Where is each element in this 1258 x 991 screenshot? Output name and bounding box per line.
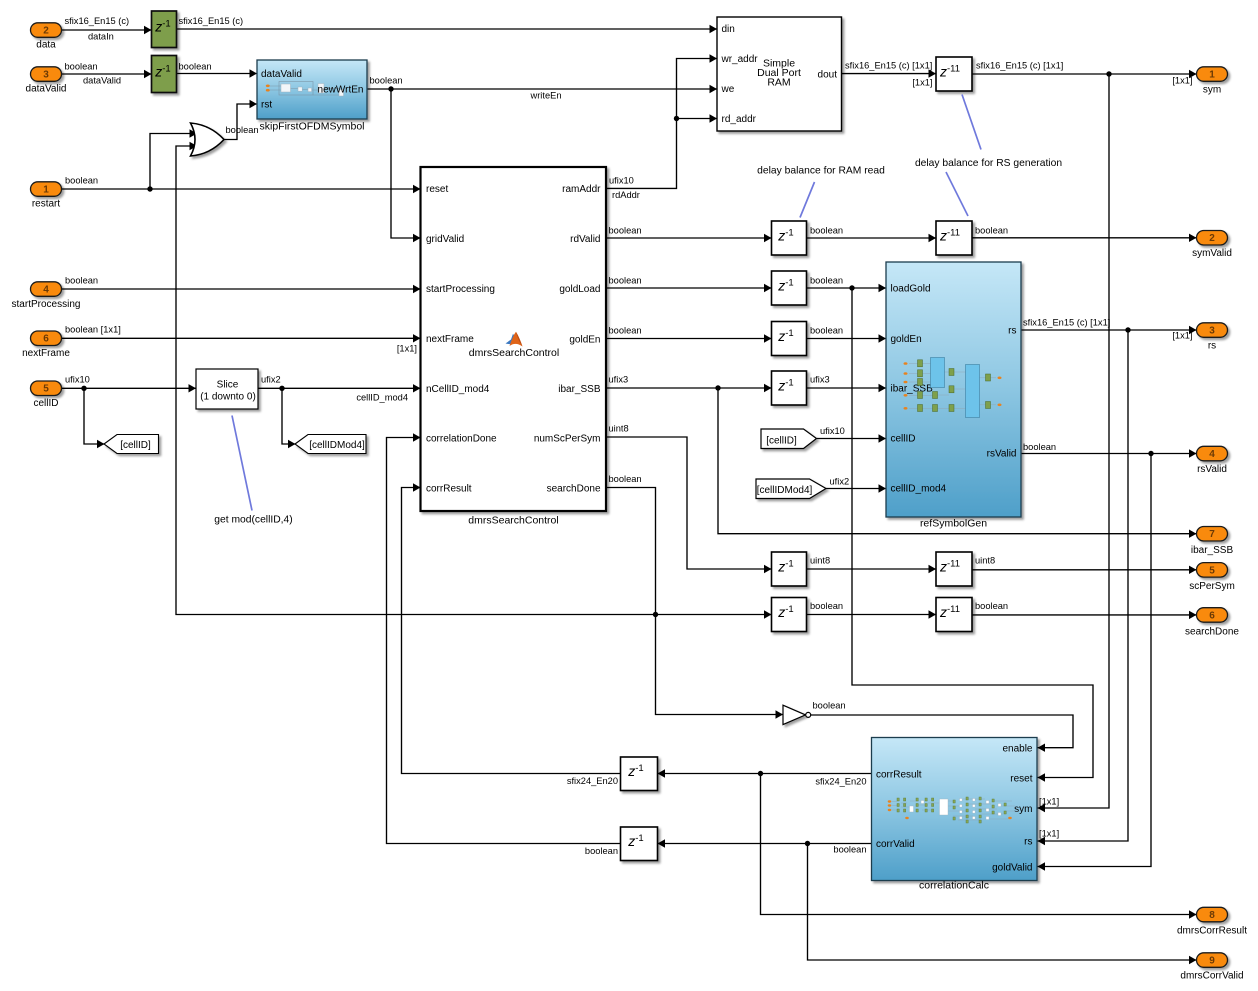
svg-text:3: 3: [1209, 326, 1215, 337]
svg-text:(1 downto 0): (1 downto 0): [200, 392, 256, 403]
svg-text:dataIn: dataIn: [88, 32, 114, 42]
inport 4 startProcessing: [12, 282, 81, 310]
svg-text:rs: rs: [1208, 340, 1216, 351]
svg-text:[1x1]: [1x1]: [1172, 76, 1192, 86]
svg-text:refSymbolGen: refSymbolGen: [920, 518, 987, 530]
svg-text:rdValid: rdValid: [570, 234, 600, 245]
svg-text:boolean: boolean: [813, 701, 846, 711]
svg-text:ibar_SSB: ibar_SSB: [891, 384, 934, 395]
svg-text:writeEn: writeEn: [530, 91, 562, 101]
svg-text:ufix2: ufix2: [261, 375, 281, 385]
svg-text:boolean: boolean: [810, 601, 843, 611]
svg-text:din: din: [722, 24, 735, 35]
svg-text:cellID_mod4: cellID_mod4: [891, 484, 947, 495]
svg-text:1: 1: [1209, 70, 1215, 81]
svg-text:[cellID]: [cellID]: [766, 436, 797, 447]
inport 1 restart: [31, 182, 62, 210]
wire OR output to rst: [224, 100, 259, 140]
wire cellID (inport5 to Slice and goto tag): [62, 375, 197, 449]
svg-text:goldLoad: goldLoad: [559, 284, 600, 295]
wire goldEn net: [606, 326, 887, 343]
wire writeEn (newWrtEn to RAM we and gridValid): [367, 76, 717, 243]
svg-text:cellID: cellID: [33, 398, 58, 409]
outport 7 ibar_SSB: [1191, 527, 1234, 557]
svg-text:cellID: cellID: [891, 434, 916, 445]
svg-text:goldEn: goldEn: [891, 334, 922, 345]
wire NOT out to enable: [811, 701, 1073, 752]
wire searchDone net (to OR gate, NOT gate, delay chain, outport6): [176, 142, 1197, 719]
svg-text:correlationDone: correlationDone: [426, 434, 497, 445]
svg-text:boolean: boolean: [179, 62, 212, 72]
inport 3 dataValid: [26, 67, 67, 95]
svg-text:ufix10: ufix10: [65, 375, 90, 385]
svg-text:boolean: boolean: [810, 276, 843, 286]
svg-text:boolean: boolean: [370, 76, 403, 86]
svg-text:4: 4: [43, 285, 49, 296]
svg-text:[1x1]: [1x1]: [397, 344, 417, 354]
svg-text:restart: restart: [32, 198, 61, 209]
svg-text:7: 7: [1209, 529, 1215, 540]
wire numScPerSym chain to outport5: [606, 424, 1197, 575]
svg-text:reset: reset: [426, 184, 448, 195]
wire corrValid net (to fb delay, dmrsCorrValid outport9): [387, 433, 1197, 964]
svg-text:reset: reset: [1010, 774, 1032, 785]
svg-text:1: 1: [43, 185, 49, 196]
svg-text:uint8: uint8: [609, 424, 629, 434]
svg-text:5: 5: [43, 384, 49, 395]
svg-text:rdAddr: rdAddr: [612, 190, 640, 200]
delay Z-1 (data) green: [152, 11, 177, 48]
svg-text:9: 9: [1209, 956, 1215, 967]
from tag [cellID]: [761, 429, 817, 449]
svg-text:newWrtEn: newWrtEn: [318, 85, 364, 96]
svg-text:dmrsSearchControl: dmrsSearchControl: [468, 515, 558, 527]
subsystem skipFirstOFDMSymbol: [257, 60, 367, 133]
inport 5 cellID: [31, 381, 62, 409]
svg-text:data: data: [36, 39, 56, 50]
wire rsValid net (to outport4 and goldValid): [1021, 442, 1197, 871]
svg-text:corrResult: corrResult: [876, 769, 922, 780]
svg-text:delay balance for RAM read: delay balance for RAM read: [757, 166, 885, 177]
svg-text:ufix3: ufix3: [609, 375, 629, 385]
wire corrResult net (to fb delay, dmrsCorrResult outport8): [402, 483, 1197, 918]
svg-text:6: 6: [1209, 610, 1215, 621]
svg-text:sfix16_En15 (c): sfix16_En15 (c): [179, 16, 244, 26]
svg-text:boolean: boolean: [609, 226, 642, 236]
svg-text:correlationCalc: correlationCalc: [919, 880, 989, 892]
svg-text:boolean: boolean: [226, 125, 259, 135]
wire slice out (to nCellID_mod4 and goto cellIDMod4): [258, 375, 421, 449]
OR gate: [191, 123, 225, 156]
svg-text:[1x1]: [1x1]: [1172, 331, 1192, 341]
svg-text:sfix24_En20: sfix24_En20: [567, 776, 618, 786]
svg-text:sym: sym: [1014, 804, 1032, 815]
svg-text:scPerSym: scPerSym: [1189, 581, 1235, 592]
svg-text:rst: rst: [261, 100, 272, 111]
svg-text:2: 2: [1209, 233, 1215, 244]
svg-text:goldValid: goldValid: [992, 863, 1032, 874]
outport 8 dmrsCorrResult: [1177, 907, 1247, 936]
svg-text:boolean: boolean: [975, 226, 1008, 236]
svg-text:sfix16_En15 (c) [1x1]: sfix16_En15 (c) [1x1]: [976, 61, 1063, 71]
svg-text:get mod(cellID,4): get mod(cellID,4): [214, 515, 292, 526]
delay Z-11 (rdValid): [936, 221, 972, 255]
svg-text:boolean: boolean: [975, 601, 1008, 611]
svg-text:startProcessing: startProcessing: [12, 299, 81, 310]
svg-text:dmrsSearchControl: dmrsSearchControl: [469, 347, 559, 359]
svg-text:rs: rs: [1008, 326, 1016, 337]
delay Z-1 (rdValid): [772, 221, 807, 255]
svg-text:ufix3: ufix3: [810, 375, 830, 385]
svg-text:boolean: boolean: [65, 62, 98, 72]
svg-text:5: 5: [1209, 565, 1215, 576]
svg-text:sfix16_En15 (c) [1x1]: sfix16_En15 (c) [1x1]: [845, 61, 932, 71]
svg-text:startProcessing: startProcessing: [426, 284, 495, 295]
wire from tag cellIDMod4 to refSymbolGen: [826, 477, 886, 493]
svg-text:corrValid: corrValid: [876, 839, 915, 850]
svg-text:cellID_mod4: cellID_mod4: [356, 393, 408, 403]
MATLAB function block dmrsSearchControl: [421, 167, 607, 527]
outport 9 dmrsCorrValid: [1180, 953, 1243, 982]
delay Z-1 (corrResult feedback): [621, 757, 658, 791]
goto tag [cellID]: [104, 435, 159, 454]
svg-text:wr_addr: wr_addr: [721, 54, 759, 65]
matlab logo: [506, 334, 516, 345]
svg-text:boolean: boolean: [810, 226, 843, 236]
delay Z-1 (scPerSym): [772, 552, 807, 586]
annotation delay balance for RS generation: [915, 95, 1062, 217]
svg-text:corrResult: corrResult: [426, 484, 472, 495]
svg-text:sym: sym: [1203, 84, 1221, 95]
delay Z-1 (dataValid) green: [152, 56, 177, 93]
RAM block Simple Dual Port RAM: [717, 17, 842, 131]
wire ramAddr (to wr_addr and rd_addr): [606, 54, 718, 200]
svg-text:2: 2: [43, 26, 49, 37]
svg-text:nextFrame: nextFrame: [426, 334, 474, 345]
svg-text:boolean: boolean: [609, 474, 642, 484]
delay Z-1 (goldLoad): [772, 271, 807, 305]
svg-text:6: 6: [43, 334, 49, 345]
annotation get mod(cellID,4): [214, 416, 292, 526]
outport 6 searchDone: [1185, 608, 1239, 638]
svg-text:searchDone: searchDone: [547, 484, 601, 495]
svg-text:ibar_SSB: ibar_SSB: [558, 384, 601, 395]
svg-text:uint8: uint8: [810, 556, 830, 566]
svg-text:boolean: boolean: [833, 845, 866, 855]
svg-text:rsValid: rsValid: [987, 449, 1017, 460]
outport 1 sym: [1197, 67, 1228, 96]
wire rdValid chain to symValid: [606, 226, 1197, 243]
svg-text:[cellIDMod4]: [cellIDMod4]: [309, 440, 365, 451]
inport 2 data: [31, 23, 62, 51]
svg-text:boolean: boolean: [609, 326, 642, 336]
svg-text:enable: enable: [1002, 744, 1032, 755]
svg-text:dataValid: dataValid: [261, 69, 302, 80]
svg-text:ufix2: ufix2: [830, 477, 850, 487]
annotation delay balance for RAM read: [757, 166, 885, 218]
subsystem refSymbolGen: [886, 262, 1021, 530]
svg-text:rsValid: rsValid: [1197, 464, 1227, 475]
svg-text:8: 8: [1209, 910, 1215, 921]
outport 5 scPerSym: [1189, 563, 1235, 592]
svg-text:rs: rs: [1024, 836, 1032, 847]
wire rs net (refSymbolGen to outport3 and correlationCalc rs): [1021, 318, 1197, 846]
svg-text:goldEn: goldEn: [569, 335, 600, 346]
svg-text:dataValid: dataValid: [26, 83, 67, 94]
svg-text:boolean [1x1]: boolean [1x1]: [65, 325, 121, 335]
svg-text:ufix10: ufix10: [609, 176, 634, 186]
svg-text:[cellIDMod4]: [cellIDMod4]: [757, 485, 813, 496]
wire data (inport2 to delay to RAM din): [62, 16, 718, 42]
svg-text:delay balance for RS generatio: delay balance for RS generation: [915, 158, 1062, 169]
svg-text:RAM: RAM: [767, 77, 790, 89]
svg-text:nCellID_mod4: nCellID_mod4: [426, 384, 490, 395]
svg-text:Slice: Slice: [217, 380, 239, 391]
wire from tag cellID to refSymbolGen: [817, 426, 886, 443]
svg-text:dout: dout: [818, 69, 838, 80]
goto tag [cellIDMod4]: [295, 435, 366, 454]
wire nextFrame: [62, 325, 421, 354]
svg-text:sfix16_En15 (c): sfix16_En15 (c): [65, 16, 130, 26]
delay Z-11 (dout): [936, 57, 972, 91]
svg-text:searchDone: searchDone: [1185, 627, 1239, 638]
svg-text:dmrsCorrValid: dmrsCorrValid: [1180, 971, 1243, 982]
delay Z-1 (goldEn): [772, 322, 807, 356]
svg-text:[1x1]: [1x1]: [1039, 797, 1059, 807]
svg-text:gridValid: gridValid: [426, 234, 464, 245]
from tag [cellIDMod4]: [756, 479, 826, 499]
inport 6 nextFrame: [22, 331, 70, 359]
svg-text:ibar_SSB: ibar_SSB: [1191, 545, 1234, 556]
NOT gate: [783, 705, 811, 724]
subsystem correlationCalc: [872, 738, 1038, 892]
svg-text:nextFrame: nextFrame: [22, 348, 70, 359]
svg-text:sfix24_En20: sfix24_En20: [815, 777, 866, 787]
svg-text:[1x1]: [1x1]: [912, 78, 932, 88]
wire goldLoad net (also to correlationCalc reset): [606, 276, 1094, 782]
svg-text:ufix10: ufix10: [820, 426, 845, 436]
svg-text:rd_addr: rd_addr: [722, 114, 757, 125]
svg-text:[1x1]: [1x1]: [1039, 829, 1059, 839]
svg-text:4: 4: [1209, 449, 1215, 460]
wire dataValid (inport3 to delay to skipFirstOFDMSymbol): [62, 62, 258, 86]
wire startProcessing: [62, 276, 421, 294]
wire dout / sym net: [842, 61, 1197, 813]
delay Z-1 (searchDone): [772, 598, 807, 632]
svg-text:boolean: boolean: [1023, 442, 1056, 452]
svg-text:boolean: boolean: [585, 846, 618, 856]
svg-text:sfix16_En15 (c) [1x1]: sfix16_En15 (c) [1x1]: [1023, 318, 1110, 328]
svg-text:boolean: boolean: [65, 276, 98, 286]
svg-text:uint8: uint8: [975, 556, 995, 566]
delay Z-11 (searchDone): [936, 598, 972, 632]
outport 3 rs: [1197, 323, 1228, 352]
svg-text:boolean: boolean: [609, 276, 642, 286]
slice block Slice (1 downto 0): [196, 369, 258, 409]
svg-text:[cellID]: [cellID]: [120, 440, 151, 451]
svg-text:symValid: symValid: [1192, 248, 1232, 259]
svg-text:boolean: boolean: [65, 176, 98, 186]
svg-text:dmrsCorrResult: dmrsCorrResult: [1177, 926, 1247, 937]
svg-text:3: 3: [43, 70, 49, 81]
svg-text:dataValid: dataValid: [83, 76, 121, 86]
svg-text:numScPerSym: numScPerSym: [534, 434, 601, 445]
svg-text:loadGold: loadGold: [891, 284, 931, 295]
svg-text:boolean: boolean: [810, 326, 843, 336]
outport 2 symValid: [1192, 231, 1232, 260]
delay Z-1 (ibar_SSB): [772, 371, 807, 405]
delay Z-1 (corrValid feedback): [621, 827, 658, 861]
delay Z-11 (scPerSym): [936, 552, 972, 586]
svg-text:skipFirstOFDMSymbol: skipFirstOFDMSymbol: [259, 121, 364, 133]
svg-text:ramAddr: ramAddr: [562, 184, 601, 195]
wire ibar_SSB net (to refSymbolGen and outport7): [606, 375, 1197, 538]
outport 4 rsValid: [1197, 446, 1228, 475]
wire restart (inport1 to reset and OR gate): [62, 129, 421, 193]
svg-text:we: we: [721, 84, 735, 95]
